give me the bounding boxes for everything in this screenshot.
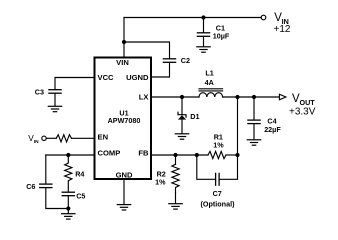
node junction LX/D1	[180, 95, 184, 99]
wire junction to C2	[124, 42, 170, 58]
capacitor C7	[216, 173, 220, 185]
wire L1 to VOUT terminal	[223, 96, 279, 98]
ground C3	[48, 106, 61, 111]
wire C6 bottom to rail	[46, 188, 69, 209]
node junction R1 right	[235, 153, 239, 157]
capacitor C5	[62, 192, 74, 196]
wire terminal to resistor	[46, 137, 56, 139]
wire D1 top lead	[181, 97, 183, 114]
VIN terminal circle	[261, 15, 266, 20]
node junction top rail / C2 branch	[122, 40, 126, 44]
svg-text:22µF: 22µF	[264, 125, 281, 134]
wire LX pin to L1	[152, 96, 200, 98]
diode D1 (schottky)	[178, 112, 186, 117]
svg-text:C3: C3	[35, 87, 44, 96]
svg-text:4A: 4A	[205, 78, 214, 87]
wire VIN pin to top rail	[123, 18, 125, 58]
wire C2 to UGND pin	[152, 63, 170, 77]
svg-text:EN: EN	[98, 133, 109, 142]
svg-text:IN: IN	[34, 139, 39, 145]
svg-text:LX: LX	[139, 93, 149, 102]
wire C1 top lead	[203, 18, 205, 33]
svg-text:R4: R4	[75, 170, 84, 179]
wire stub to ground	[67, 209, 69, 214]
wire GND pin to ground	[123, 180, 125, 205]
wire C5 bottom lead	[67, 196, 69, 209]
wire D1 bottom lead	[181, 119, 183, 133]
resistor R1	[208, 151, 226, 158]
capacitor C4	[248, 120, 260, 124]
svg-text:VCC: VCC	[98, 73, 115, 82]
wire C4 top lead	[253, 97, 255, 120]
IC U1 box	[95, 58, 152, 180]
wire R1 to node	[226, 154, 238, 156]
capacitor C6	[40, 184, 52, 188]
wire C4 bottom lead	[253, 124, 255, 139]
ground C1	[197, 47, 210, 52]
svg-text:VIN: VIN	[116, 58, 129, 67]
node junction COMP/R4	[66, 153, 70, 157]
wire COMP pin left	[46, 154, 95, 156]
ground GND pin	[117, 205, 130, 210]
resistor R2	[172, 164, 179, 192]
svg-text:+3.3V: +3.3V	[289, 106, 316, 117]
svg-text:FB: FB	[138, 149, 149, 158]
svg-text:UGND: UGND	[126, 73, 149, 82]
svg-text:D1: D1	[190, 112, 199, 121]
wire C1 bottom lead	[203, 37, 205, 47]
wire C7 left lead	[197, 155, 215, 179]
node junction bottom rail	[66, 206, 70, 210]
svg-text:C7: C7	[213, 189, 222, 198]
wire FB pin to R1	[152, 154, 209, 156]
node junction C4	[252, 95, 256, 99]
wire top rail to VIN terminal	[124, 17, 261, 19]
ground R2	[169, 204, 182, 209]
capacitor C1	[197, 33, 209, 37]
inductor L1	[199, 93, 223, 97]
svg-text:C5: C5	[76, 192, 85, 201]
wire resistor to EN pin	[72, 137, 95, 139]
wire FB node up to VOUT rail	[237, 97, 239, 155]
inductor L1 core	[199, 89, 223, 91]
svg-text:L1: L1	[205, 69, 213, 78]
ground C4	[247, 140, 260, 145]
wire C7 right lead	[220, 155, 238, 179]
svg-text:C6: C6	[26, 182, 35, 191]
capacitor C2	[163, 59, 175, 63]
wire C3 bottom lead	[54, 94, 56, 106]
node junction FB sense	[235, 95, 239, 99]
svg-text:GND: GND	[116, 171, 133, 180]
VOUT terminal arrow	[279, 94, 286, 100]
svg-text:1%: 1%	[213, 140, 224, 149]
svg-text:1%: 1%	[155, 178, 166, 187]
node junction R2	[173, 153, 177, 157]
wire down to C6	[45, 155, 47, 184]
capacitor C3	[49, 90, 61, 94]
wire R2 top lead	[175, 155, 177, 164]
svg-text:APW7080: APW7080	[108, 116, 141, 125]
wire R2 bottom lead	[175, 193, 177, 204]
node junction C7 left	[195, 153, 199, 157]
resistor (EN series)	[56, 135, 71, 142]
svg-text:(Optional): (Optional)	[201, 200, 236, 209]
wire VCC pin to C3	[55, 78, 95, 90]
terminal circle VIN(EN)	[42, 136, 46, 140]
ground C5/C6	[62, 214, 75, 219]
svg-text:C2: C2	[181, 56, 190, 65]
svg-text:10µF: 10µF	[213, 32, 230, 41]
node junction C1 on top rail	[201, 15, 205, 19]
svg-text:COMP: COMP	[98, 149, 121, 158]
svg-text:+12: +12	[274, 24, 291, 35]
ground D1	[175, 134, 188, 139]
resistor R4	[65, 155, 72, 192]
